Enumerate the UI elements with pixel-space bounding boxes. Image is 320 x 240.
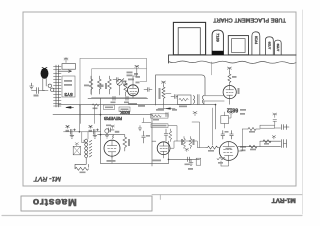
ground G2: [189, 159, 193, 165]
value label C4: [106, 125, 111, 127]
wire transformer to V2: [204, 96, 225, 101]
potentiometer VR1: [117, 80, 123, 86]
wire V5 plate to output: [238, 147, 242, 151]
junction dot C: [79, 131, 81, 133]
scan shadow right: [302, 10, 304, 214]
resistor R22: [75, 158, 89, 170]
value label C20: [66, 130, 70, 132]
resistor R12 vertical: [183, 137, 186, 149]
capacitor C8 vertical: [164, 129, 168, 141]
capacitor C5 vertical: [142, 131, 146, 143]
reverb driver transformer T3: [194, 96, 204, 104]
switch arm SW2: [117, 79, 124, 85]
triode V4 6EU7: [157, 142, 170, 155]
resistor R10 vertical: [169, 129, 172, 142]
value label R18: [249, 131, 255, 133]
ground near intensity: [138, 126, 142, 131]
wire pilot lamp stem: [43, 78, 46, 91]
speaker label box: [260, 125, 275, 128]
wire VR2 bottom: [158, 104, 175, 109]
resistor R2 vertical: [108, 76, 112, 94]
wire grid row2: [98, 134, 125, 136]
resistor R19: [263, 140, 271, 143]
resistor R7 on bus: [92, 104, 99, 107]
resistor R18: [248, 128, 256, 131]
capacitor C2 on bus: [113, 96, 115, 100]
resistor R5 vertical 400K: [123, 135, 127, 151]
value label V5: [226, 148, 232, 150]
value label R14: [218, 162, 223, 164]
svg-text:M1-RVT: M1-RVT: [272, 197, 296, 204]
value label cluster V1: [127, 72, 133, 74]
wire output vertical: [242, 129, 260, 147]
capacitor C10 on bottom bus: [188, 157, 190, 162]
tube base shadow (black): [212, 51, 224, 55]
svg-text:6EU7: 6EU7: [276, 44, 280, 52]
value label R17: [84, 85, 89, 87]
wire vertical x168: [168, 141, 170, 163]
wire bus B+ y104: [58, 104, 216, 106]
svg-text:TUBE PLACEMENT CHART: TUBE PLACEMENT CHART: [213, 16, 286, 22]
bias box right: [196, 158, 201, 165]
value label C2: [111, 102, 116, 104]
pentode V5 7189: [219, 142, 238, 161]
jack J1 speaker: [282, 125, 290, 130]
control box BASS: [119, 107, 130, 112]
value label C12: [225, 131, 229, 133]
switch arrow SW1: [58, 70, 72, 72]
rectifier label box 5Y3: [62, 76, 75, 97]
value label C3: [124, 102, 129, 104]
wire box to jack: [275, 127, 281, 129]
value label R22: [80, 172, 86, 174]
wire output upper: [242, 128, 260, 130]
wire bottom bus: [101, 162, 169, 164]
output transformer T2: [85, 139, 92, 158]
value label R15: [153, 119, 159, 121]
scan shadow bottom: [2, 215, 302, 217]
value label R12: [181, 139, 183, 145]
resistor R1 1MEG vertical: [89, 76, 93, 94]
wire transformer secondary to bus: [203, 101, 205, 105]
power transformer on chart: [173, 22, 205, 54]
wire footswitch: [225, 112, 231, 128]
capacitor C15 with flag: [273, 113, 277, 125]
pin labels V5: [240, 146, 246, 148]
resistor R20: [249, 145, 257, 148]
svg-text:M1- RVT: M1- RVT: [33, 175, 61, 182]
control box TREBLE: [104, 105, 115, 110]
flag node coupling: [185, 148, 189, 151]
connector plug P1: [48, 84, 51, 87]
wire V5 cathode: [221, 161, 229, 166]
wire plate V1 to B+: [133, 70, 137, 85]
wire V3 cathode down: [111, 156, 113, 163]
resistor R11 grid stopper: [206, 146, 219, 149]
value label R7: [93, 108, 98, 110]
antenna flag node AC: [64, 57, 68, 62]
value label near arrow: [156, 109, 164, 111]
value label SW2: [122, 81, 127, 83]
wire vertical x94 filter: [80, 105, 94, 124]
resistor R2a vertical: [98, 76, 102, 94]
wire bus y114: [53, 114, 152, 116]
connector plug P2: [51, 88, 54, 91]
output tube 7189 on chart: [212, 30, 223, 55]
footer rule line: [152, 194, 302, 196]
flag node V4 plate: [193, 112, 197, 116]
chassis ground drop: [211, 62, 213, 75]
wire vertical x152: [151, 115, 153, 166]
value label V3 below: [107, 160, 116, 162]
wire supply rail: [64, 105, 101, 132]
wire vertical x100: [100, 98, 102, 163]
capacitor C6 reverb in: [171, 95, 178, 99]
value label C10: [185, 164, 190, 166]
value label R20: [250, 149, 256, 151]
capacitor C3 on bus: [126, 96, 128, 100]
value label A10: [172, 109, 177, 111]
wire C5 to intensity: [142, 118, 151, 122]
resistor R14 cathode: [217, 157, 225, 160]
wire intensity node to V5 grid: [192, 122, 200, 148]
potentiometer VR3: [105, 129, 109, 133]
title block box Maestro: [21, 196, 152, 211]
resistor R3 vertical: [124, 81, 127, 96]
filter capacitor C20: [66, 125, 76, 138]
pilot lamp PL1 (filled): [41, 69, 48, 79]
wire T2 primary: [82, 132, 88, 143]
label under V1: [128, 103, 137, 105]
filled arrow on supply bus: [66, 107, 71, 109]
ground at input: [30, 83, 34, 89]
flag node mid: [272, 136, 275, 140]
value label G2: [188, 168, 193, 170]
junction dot B: [100, 134, 102, 136]
resistor R13 vertical: [189, 137, 192, 149]
resistor R8 in box: [179, 98, 188, 101]
capacitor C13: [230, 131, 234, 140]
speaker jack J0: [73, 146, 80, 155]
wire output mid: [260, 140, 281, 142]
wire V2 cathode down: [229, 101, 231, 104]
cap C7 on bus y114: [166, 113, 168, 117]
wire bus right segment: [169, 158, 200, 160]
wire VR2 tap right: [166, 93, 172, 95]
B+ flag node: [135, 65, 139, 69]
preamp tube 6EU7 on chart: [265, 37, 273, 55]
capacitor C0 line filter: [32, 88, 45, 94]
chassis wavy bottom edge: [169, 61, 297, 63]
value label 400K vertical: [128, 139, 130, 146]
footswitch box below V2: [221, 116, 229, 124]
value label V2 right: [238, 88, 240, 94]
capacitor C4: [109, 128, 115, 132]
svg-text:5Y3: 5Y3: [64, 92, 73, 97]
preamp shield box inner: [92, 69, 147, 98]
triode V3 6EU7: [104, 140, 120, 156]
value label right of C4: [115, 131, 120, 133]
footer tick: [159, 195, 161, 200]
fuse box F1: [62, 64, 76, 70]
reverb feedback wire loop: [156, 75, 205, 105]
junction dot D: [168, 159, 170, 161]
svg-text:REVERB: REVERB: [104, 116, 122, 121]
value label vertical VR2: [159, 88, 161, 99]
filter capacitor C21: [89, 125, 99, 138]
svg-text:6EU7: 6EU7: [268, 42, 272, 50]
flag node above C4: [111, 125, 115, 129]
ground under VR3: [105, 133, 109, 138]
svg-text:Maestro: Maestro: [32, 196, 76, 208]
value label R13: [193, 139, 195, 145]
page border frame: [23, 12, 296, 186]
value label .05: [34, 95, 39, 97]
junction dot E: [215, 104, 217, 106]
reverb transducer box: [178, 95, 192, 105]
triode-pentode V2 7199: [223, 86, 236, 99]
preamp shield box outer: [80, 58, 147, 105]
wire intensity to grid: [168, 126, 177, 141]
value label R2: [105, 83, 107, 89]
svg-text:7189: 7189: [216, 33, 221, 42]
triode V1A 6EU7: [128, 85, 139, 96]
wire screen dropper vertical: [211, 108, 213, 145]
wire grid bus y98: [88, 97, 148, 99]
pin labels V2: [240, 109, 246, 111]
resistor R4 mini vertical: [112, 135, 114, 140]
potentiometer VR2 depth chain: [162, 86, 165, 105]
value label V4 below: [152, 160, 161, 162]
flag node VR2: [162, 81, 166, 86]
rectifier tube 6CA4 on chart: [252, 32, 260, 55]
label pins: [64, 80, 72, 82]
chassis shelf line: [169, 55, 297, 63]
junction dot A: [100, 114, 102, 116]
B+ flag node V2: [227, 67, 231, 72]
output transformer on chart: [228, 36, 248, 55]
flag node at footswitch: [229, 111, 232, 114]
wire vertical x215: [215, 105, 217, 129]
wire output lower: [238, 146, 281, 148]
value label under box right: [138, 105, 145, 107]
value label R11: [208, 150, 214, 152]
control box INTENSITY: [151, 124, 168, 128]
capacitor C9 coupling to loop: [144, 88, 152, 92]
value label C21: [89, 130, 93, 132]
wire v4 grid: [152, 140, 156, 142]
value label C5: [146, 135, 150, 137]
preamp tube 6EU7 second on chart: [274, 40, 281, 55]
resistor R9 plate dropper: [228, 72, 231, 86]
wire lamp to strip: [43, 90, 48, 92]
power transformer T1 winding strip: [54, 65, 62, 107]
capacitor C1 coupling: [113, 78, 121, 82]
value label R9: [232, 76, 237, 78]
value label R19: [264, 143, 269, 145]
value label 1MEG: [98, 85, 104, 87]
jack J2 ext speaker: [282, 140, 287, 148]
svg-text:500K: 500K: [120, 110, 130, 115]
wire v4 to r11: [170, 141, 206, 148]
svg-text:6CA4: 6CA4: [254, 36, 258, 44]
boxed resistor R15 on bus: [151, 114, 169, 118]
capacitor C12: [221, 131, 225, 140]
value label spring: [179, 106, 187, 108]
value label 1MEG second: [99, 85, 104, 87]
